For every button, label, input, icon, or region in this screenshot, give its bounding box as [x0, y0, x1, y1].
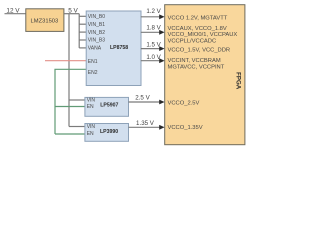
wire 1.0V rail — [141, 60, 161, 62]
wire stub EN LP3990 (green) — [55, 133, 85, 135]
svg-text:VCCO_MIO0/1, VCCPAUX: VCCO_MIO0/1, VCCPAUX — [168, 32, 238, 38]
regulator U2 LP8758 — [86, 11, 141, 86]
wire stub VIN_B3 — [79, 39, 86, 41]
wire stub VANA — [79, 47, 86, 49]
wire EN2 (green) — [55, 69, 86, 134]
svg-text:LP8758: LP8758 — [110, 45, 128, 51]
wire 5V from LMZ31503 — [64, 13, 79, 15]
svg-text:VIN_B1: VIN_B1 — [88, 22, 105, 28]
svg-text:VCCO 1.2V, MGTAVTT: VCCO 1.2V, MGTAVTT — [168, 15, 228, 21]
wire stub VIN_B2 — [79, 31, 86, 33]
svg-text:LP3990: LP3990 — [100, 129, 118, 135]
svg-text:VIN: VIN — [87, 124, 96, 130]
svg-text:VCCO_1.5V, VCC_DDR: VCCO_1.5V, VCC_DDR — [168, 48, 231, 54]
svg-text:1.2 V: 1.2 V — [146, 8, 161, 15]
svg-text:VCCPLL/VCCADC: VCCPLL/VCCADC — [168, 38, 217, 44]
svg-text:VCCINT, VCCBRAM: VCCINT, VCCBRAM — [168, 58, 221, 64]
wire 5V vertical ladder to VIN pins — [78, 14, 80, 48]
regulator U3 LP5907 — [85, 97, 129, 116]
wire stub VIN_B0 — [79, 15, 86, 17]
wire 2.5V rail — [129, 101, 161, 103]
svg-text:VIN_B2: VIN_B2 — [88, 30, 105, 36]
wire stub VIN LP5907 — [69, 99, 85, 101]
svg-text:VCCO_2.5V: VCCO_2.5V — [168, 101, 200, 107]
svg-text:VCCAUX, VCCO_1.8V: VCCAUX, VCCO_1.8V — [168, 26, 227, 32]
svg-text:1.5 V: 1.5 V — [146, 42, 161, 49]
svg-text:EN: EN — [87, 131, 94, 137]
svg-text:VIN_B3: VIN_B3 — [88, 38, 105, 44]
svg-text:VANA: VANA — [88, 46, 102, 52]
svg-text:EN2: EN2 — [88, 70, 98, 76]
svg-text:2.5 V: 2.5 V — [135, 94, 150, 101]
svg-text:LMZ31503: LMZ31503 — [31, 18, 59, 24]
wire 5V drop to LDO VIN pins — [68, 14, 70, 127]
svg-text:LP5907: LP5907 — [100, 102, 118, 108]
svg-text:EN1: EN1 — [88, 59, 98, 65]
svg-text:1.0 V: 1.0 V — [146, 54, 161, 61]
FPGA block — [165, 5, 245, 145]
svg-text:1.8 V: 1.8 V — [146, 25, 161, 32]
svg-text:MGTAVCC, VCCPINT: MGTAVCC, VCCPINT — [168, 64, 225, 70]
svg-text:EN: EN — [87, 104, 94, 110]
wire 1.35V rail — [129, 126, 161, 128]
wire stub VIN LP3990 — [69, 126, 85, 128]
regulator U1 LMZ31503 — [26, 9, 64, 32]
wire 12V input — [5, 13, 26, 15]
svg-text:VIN: VIN — [87, 98, 96, 104]
svg-text:VIN_B0: VIN_B0 — [88, 14, 105, 20]
svg-text:1.35 V: 1.35 V — [136, 120, 155, 127]
wire EN1 (red) — [45, 60, 86, 62]
wire 1.8V rail — [141, 31, 161, 33]
regulator U4 LP3990 — [85, 124, 129, 142]
wire stub EN LP5907 (green) — [55, 106, 85, 108]
svg-text:VCCO_1.35V: VCCO_1.35V — [168, 125, 203, 131]
wire 1.5V rail — [141, 48, 161, 50]
wire 1.2V rail — [141, 16, 161, 18]
wire stub VIN_B1 — [79, 23, 86, 25]
svg-text:FPGA: FPGA — [235, 72, 242, 90]
